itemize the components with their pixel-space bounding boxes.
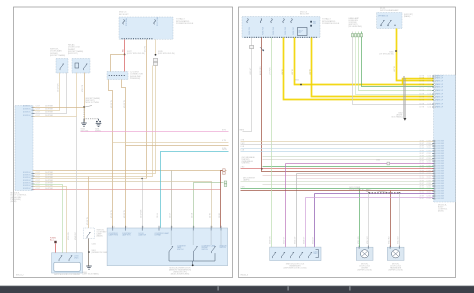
wire VTL row to door lock pin4 [306,197,434,199]
fuse F32 inside TIPM [123,20,125,25]
svg-text:4: 4 [220,227,221,229]
TIPM2 right inner pin squares [310,21,312,23]
wire GY row to door lock pin3 [297,173,434,175]
wire WT inline connector to BCM row1 [33,66,156,174]
wire TN inline connector to BCM row2 [33,66,153,177]
svg-text:DOOR LK: DOOR LK [23,115,31,117]
wire TN relay K12 pin2 down [84,73,86,122]
svg-text:L33 YE: L33 YE [292,68,294,75]
fuse glyph FUSE F97 [291,19,293,23]
wire PK horizontal to off-page [81,131,229,133]
wire TN branch from pin1 vertical to off-page [113,142,229,144]
bottom status bar [0,286,474,293]
ground arrowhead G302 [403,118,406,121]
wire DRD TIPM2 down long [262,38,434,172]
wire YE TIPM2 B [295,38,434,85]
door lock switch blade 4 [309,252,312,258]
wire RD BCM row to join [33,189,221,191]
wire PGN TIPM2 down [271,38,273,154]
svg-text:20 GN: 20 GN [191,212,193,218]
wire pale row from note block [263,159,434,161]
svg-text:C326: C326 [92,244,96,246]
splice on AC wire [88,251,90,253]
wire TN BCM row4 [33,116,77,118]
ground G200 symbol [81,119,87,126]
wire WT TIPM2 to off-page left [243,38,252,132]
wire RD from TIPM fuse F32 [124,40,126,55]
jumper leader lines [362,190,370,193]
wire TN BCM row1 to junction [33,107,85,109]
svg-text:C2 17: C2 17 [36,109,41,111]
wire GN row with T to door lock pin1 [263,166,434,168]
inline connector leveling 3 [360,34,362,37]
svg-text:C1 4: C1 4 [427,90,431,92]
inner key cylinder rect [54,262,81,271]
fuse glyph FUSE F36 [247,19,249,23]
joint connector pin dots [109,75,125,76]
svg-text:FUSE F91: FUSE F91 [285,27,287,35]
svg-text:C1 4: C1 4 [427,107,431,109]
inline connector leveling 1 [354,34,356,37]
wire VTL vertical door lock pin4 [305,198,307,248]
door lock switch blade 3 [300,252,303,258]
bracket glyph in door lock box [316,250,319,258]
wire off-page right 2 [241,148,434,150]
driver door module (switch pack) [107,228,228,266]
BCM2 pin ticks upper [432,76,435,107]
wire PGN row 182 with inline connectors to pin 191 [194,183,224,229]
relay blade K12 [84,64,88,70]
wire DRD row to motor2 left [241,190,434,192]
svg-text:FUSE F49: FUSE F49 [273,27,275,35]
svg-text:M1 20 TN: M1 20 TN [87,216,89,225]
svg-text:M1 20 TN: M1 20 TN [111,209,113,218]
svg-text:4: 4 [172,227,173,229]
svg-text:PARK LP: PARK LP [436,77,444,80]
door module top pin ticks [113,226,221,231]
inline connector C25 on wire [153,62,157,65]
svg-text:18 LB: 18 LB [222,149,227,151]
svg-text:M111 GN: M111 GN [358,236,360,244]
right schematic page [239,7,456,278]
door module switch 3 [212,246,216,253]
inline connector C24 on wire [153,58,157,61]
svg-text:PARK LP: PARK LP [436,86,444,89]
switch blade S23 [60,64,64,70]
wire TN branch from pin2 vertical to off-page [126,145,229,147]
svg-text:4: 4 [212,227,213,229]
svg-text:M337 VT: M337 VT [284,236,286,244]
switch-A/C inertia box [84,228,95,239]
svg-text:20 GY: 20 GY [169,212,171,218]
wire GN vertical motor1 left [359,189,361,248]
wire LB horizontal from off-page [161,152,229,229]
wire TN relay K12 pin1 down [76,73,78,117]
wire TN BCM row to pin 211 [33,182,212,229]
fuse F107 inside TIPM [154,20,156,25]
svg-text:(W/O POWERDOOR LOCKS): (W/O POWERDOOR LOCKS) [349,187,362,191]
svg-text:DOOR LK: DOOR LK [23,180,31,182]
body control module right page [434,75,456,202]
module TIPM right page [242,17,320,38]
svg-text:DOOR LK: DOOR LK [23,106,31,108]
inline connector on WT wire [250,46,254,49]
svg-text:4: 4 [194,227,195,229]
inline connector pair green on row 182 [224,181,227,184]
switch component S23 (door ajar) [56,59,68,74]
wire TN from TIPM center [146,40,148,179]
door lock switch blade 0 [273,252,276,258]
svg-text:M112 WT: M112 WT [367,235,369,244]
svg-text:20 WT/BR: 20 WT/BR [45,112,54,114]
svg-text:A116 DRD: A116 DRD [259,66,262,75]
wire BK AC switch down [88,239,90,267]
fuse glyph FUSE F91 [283,19,285,23]
wire YE headlamp switch down [397,29,434,81]
wire pale GN row from note block [263,156,434,158]
svg-text:M2 20 TN: M2 20 TN [124,209,126,218]
lock switch blade 1 [59,256,62,262]
inline connector leveling 2 [357,34,359,37]
svg-text:L34 YE: L34 YE [282,68,284,75]
svg-text:M114 WT: M114 WT [398,235,400,244]
svg-text:20 WT/BR: 20 WT/BR [45,109,54,111]
svg-text:C1 4: C1 4 [427,97,431,99]
wire leveling 1 [356,32,434,95]
svg-text:DOOR LK: DOOR LK [23,112,31,114]
wire leveling 0 [353,32,434,105]
svg-text:M110 TN: M110 TN [82,84,84,92]
wire pale gray row [263,184,434,186]
headlamp switch blade 2 [388,20,391,26]
wire off-page right 1 [241,144,434,146]
svg-text:L44 YE: L44 YE [310,68,312,75]
svg-text:4: 4 [126,227,127,229]
svg-text:PARK LP: PARK LP [436,89,444,92]
svg-text:L77 PGN: L77 PGN [270,67,272,75]
splice S377 [124,54,126,56]
wire WT switch S23 pin1 down [33,73,60,111]
splice S300 [395,50,397,52]
status bar divider 1 [218,286,219,290]
battery feed square [54,241,56,243]
headlamp switch blade 1 [381,20,384,26]
svg-text:PARK LP: PARK LP [436,93,444,96]
svg-text:L91 YE: L91 YE [394,65,396,72]
svg-text:C2 17: C2 17 [36,112,41,114]
wire GN TIPM vertical continues to door lock pin1 [271,154,273,248]
splice S376 [155,54,157,56]
body control module BCM [15,106,33,191]
svg-text:L961 WT: L961 WT [250,67,252,75]
AC switch blade [87,232,90,238]
BCM2 pin circles lower [434,140,436,199]
motor-door lock passenger circle [392,250,400,258]
wire TN BCM row to lock switch 2b [33,187,67,253]
wire RD battery stub to lock switch [55,244,57,253]
relay coil K12 [75,63,79,68]
svg-text:M2 20 TN: M2 20 TN [111,99,113,108]
inline connector pair on row 171 [223,169,226,172]
internal pin drop wires [171,231,221,245]
wire TN branch from splice S377 [111,55,125,72]
fuse glyph FUSE F38 [260,19,262,23]
door module switch 1 [169,246,173,253]
jumper dot right [399,192,401,194]
svg-text:C1 4: C1 4 [427,100,431,102]
svg-text:C1 4: C1 4 [427,87,431,89]
BCM pin ticks upper [32,107,35,116]
wire DRD vertical motor2 left [390,191,392,248]
ground G201 symbol with dots [96,121,101,123]
dashed option jumper wire [369,192,400,194]
leader line to junction [85,106,92,108]
svg-text:M3 20 TN: M3 20 TN [124,99,126,108]
svg-text:DOOR LK: DOOR LK [23,177,31,179]
wire TN vertical from BCM row to AC switch [88,177,90,229]
svg-text:SWITCH-DOOR LOCKPASSENGER(W/PO: SWITCH-DOOR LOCKPASSENGER(W/POWER DOOR L… [284,264,307,270]
svg-text:20 RD: 20 RD [219,212,221,218]
wire TN BCM row 171 to off-page [33,170,227,172]
svg-text:F107 10A: F107 10A [156,17,159,26]
svg-text:M339 GN: M339 GN [68,232,70,240]
module TIPM (totally integrated power module) left page [119,17,173,39]
wire BK ground 2 [404,78,407,118]
svg-text:S302: S302 [295,80,299,82]
svg-text:COURTESYLAMP FEED: COURTESYLAMP FEED [109,233,119,237]
svg-text:DOOR LK: DOOR LK [23,109,31,111]
relay sub box inside TIPM2 [298,28,308,36]
motor-door lock driver [356,247,373,260]
svg-text:MOTOR-DOOR LOCKDRIVER(W/PWR LO: MOTOR-DOOR LOCKDRIVER(W/PWR LOCKS) [358,264,373,272]
left schematic page [14,7,233,278]
svg-text:PARK LP: PARK LP [436,106,444,109]
motor-door lock driver circle [361,250,369,258]
switch-door lock passenger box [270,247,321,261]
svg-text:DOOR LK: DOOR LK [23,185,31,187]
fusible link arrow glyph [260,47,264,51]
svg-text:20 WT/BR: 20 WT/BR [140,209,142,218]
svg-text:M336 VT: M336 VT [304,236,306,244]
svg-text:PARK LP: PARK LP [436,80,444,83]
inline connector on VT row [387,162,390,165]
motor-door lock passenger pin ticks [390,246,399,249]
wire GN row to motor1 left [241,188,434,190]
wire GN BCM row to lock switch [33,185,63,253]
svg-text:4: 4 [114,227,115,229]
svg-text:C1 4: C1 4 [427,78,431,80]
motor-door lock passenger [387,247,404,260]
wire WT switch S23 pin2 down [33,73,67,114]
splice on YE B [300,84,302,86]
status bar divider 3 [349,286,350,290]
wire DVT row to door lock pin5 [315,193,434,195]
svg-text:LOCK SW: LOCK SW [436,198,444,200]
relay component K12 [72,59,90,74]
TIPM2 bottom edge connector pin dashes [245,37,317,38]
status bar divider 2 [288,286,289,290]
svg-text:MOTOR-DOOR LOCKPASSENGER(W/PWR: MOTOR-DOOR LOCKPASSENGER(W/PWR LOCKS) [389,264,404,272]
svg-text:C1 4: C1 4 [427,104,431,106]
wire leveling 2 [359,32,434,91]
BCM2 pin circles upper [434,75,436,108]
svg-text:8W-61-2: 8W-61-2 [16,274,25,276]
wire WT motor2 right [399,193,401,248]
headlamp switch contact dots [380,25,395,26]
wire RD splice to joint connector [124,55,126,72]
svg-text:C1 4: C1 4 [427,94,431,96]
svg-text:PARK LP: PARK LP [436,96,444,99]
wire YE TIPM2 A [284,38,434,100]
wire WT BCM row3 to TIPM riser [33,178,147,180]
svg-text:C2 31: C2 31 [426,198,431,200]
joint connector C2 [107,72,128,80]
door lock switch blade 2 [291,252,294,258]
fuse glyph FUSE F49 [271,19,273,23]
svg-text:M338 GN: M338 GN [270,236,272,244]
svg-text:F87F30: F87F30 [313,22,316,26]
svg-text:PARK LP: PARK LP [436,103,444,106]
svg-text:SWITCH-DOOR LOCK DRIVER: SWITCH-DOOR LOCK DRIVER [54,274,80,276]
wire YE TIPM2 C [312,38,434,97]
motor-door lock driver pin ticks [359,246,368,249]
svg-text:M335 GY: M335 GY [295,236,297,244]
svg-text:F32 20A: F32 20A [125,18,128,26]
svg-text:20 WT/OR: 20 WT/OR [58,83,60,92]
wire DVT vertical door lock pin5 [314,194,316,248]
wire DRD from inline connector down to pin 221 [221,171,223,229]
wire RD off-page [241,168,434,170]
wire BK ground 1 [403,76,406,118]
ground G301 symbol [86,266,92,269]
door module switch 2 [194,246,198,253]
svg-text:FUSE F36: FUSE F36 [249,27,251,35]
wire WT motor1 right [368,193,370,248]
lock switch blade 2 [69,256,72,262]
svg-text:FUSE F38: FUSE F38 [263,27,265,35]
bus junction dot [192,264,194,266]
svg-text:M334 VT: M334 VT [312,236,314,244]
door lock switch blade 1 [282,252,285,258]
wire leveling 3 [362,32,434,87]
wire pale green row off-page [241,181,434,183]
BCM pin ticks lower [32,173,35,189]
svg-text:20 TN: 20 TN [209,212,211,218]
svg-text:4: 4 [160,227,161,229]
svg-text:4: 4 [143,227,144,229]
jumper dot left [368,192,370,194]
wire off-page right 0 [241,141,434,143]
svg-text:M340 WT: M340 WT [75,231,77,240]
wire YE stub to row78 [403,79,434,85]
wire TN joint connector to door module pin1 [109,80,113,229]
svg-text:8W-61-3: 8W-61-3 [241,274,250,276]
svg-text:C1 4: C1 4 [427,81,431,83]
svg-text:PARK LP: PARK LP [436,99,444,102]
wire VT vertical door lock pin2 [285,164,287,248]
svg-text:C330: C330 [376,160,380,162]
switch-door lock driver box [52,253,83,273]
svg-text:M113 RD: M113 RD [389,236,391,244]
svg-text:LOCKUNLK: LOCKUNLK [314,252,318,256]
svg-text:M1 TN: M1 TN [144,46,146,52]
wire GY branch row171 to pin 171 [171,171,173,229]
wire GY vertical door lock pin3 [296,174,298,248]
wire pale pink row [297,178,434,180]
TIPM bottom edge connector pin dashes [122,38,153,39]
svg-text:DOOR LK: DOOR LK [23,188,31,190]
svg-text:FUSE F97: FUSE F97 [293,27,295,35]
internal bus wire [169,253,215,265]
headlamp switch [377,13,402,29]
svg-text:MODULE-DRIVER DOOR(MEMORY SEAT: MODULE-DRIVER DOOR(MEMORY SEAT/MIRROR)(W… [169,268,191,276]
svg-text:20 VT: 20 VT [419,198,424,200]
wire off-page right 3 [241,151,434,153]
junction RD and DRD wires [261,168,262,169]
wire VT row to door lock pin2 [286,163,434,165]
wire pale red row [263,175,434,177]
BCM2 pin ticks lower [432,141,435,199]
wire WT row3 branch to door switch module [142,179,144,229]
junction row3 [141,178,143,180]
svg-text:18 LB: 18 LB [157,213,159,218]
junction on BCM row1 [83,106,85,108]
wire WT from TIPM fuse F107 [155,40,157,55]
svg-text:2 WT: 2 WT [241,143,245,145]
wire TN joint connector to door module pin2 [122,80,126,229]
inline connector leveling 0 [351,34,353,37]
dashed option wire from junction [84,107,99,119]
wire WT vertical comp B pin1 continues to lock switch [76,117,78,253]
